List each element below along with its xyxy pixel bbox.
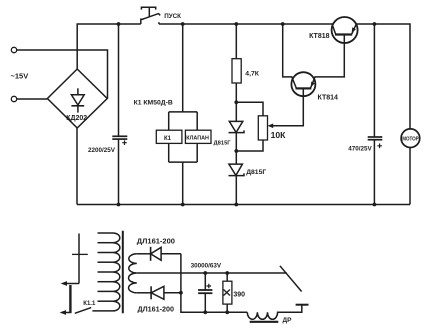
svg-text:ДР: ДР — [283, 317, 293, 324]
svg-text:2200/25V: 2200/25V — [88, 147, 116, 154]
svg-text:КЛАПАН: КЛАПАН — [186, 136, 209, 142]
svg-text:390: 390 — [233, 291, 245, 298]
svg-text:К1.1: К1.1 — [83, 301, 96, 307]
svg-text:МОТОР: МОТОР — [402, 137, 419, 143]
svg-text:30000/63V: 30000/63V — [191, 263, 222, 270]
svg-text:К1 КМ50Д-В: К1 КМ50Д-В — [134, 99, 173, 106]
svg-text:КТ814: КТ814 — [318, 95, 339, 102]
svg-text:10К: 10К — [271, 130, 287, 140]
svg-text:К1: К1 — [164, 136, 172, 142]
svg-text:КД202: КД202 — [66, 115, 87, 122]
svg-text:КТ818: КТ818 — [309, 33, 330, 40]
svg-text:ДЛ161-200: ДЛ161-200 — [138, 304, 175, 313]
svg-text:~15V: ~15V — [11, 72, 29, 81]
svg-text:470/25V: 470/25V — [348, 146, 372, 153]
svg-text:ПУСК: ПУСК — [164, 13, 181, 20]
svg-text:Д815Г: Д815Г — [246, 169, 266, 176]
svg-text:Д815Г: Д815Г — [214, 141, 232, 147]
svg-text:ДЛ161-200: ДЛ161-200 — [137, 236, 175, 245]
svg-text:4,7К: 4,7К — [245, 71, 259, 78]
